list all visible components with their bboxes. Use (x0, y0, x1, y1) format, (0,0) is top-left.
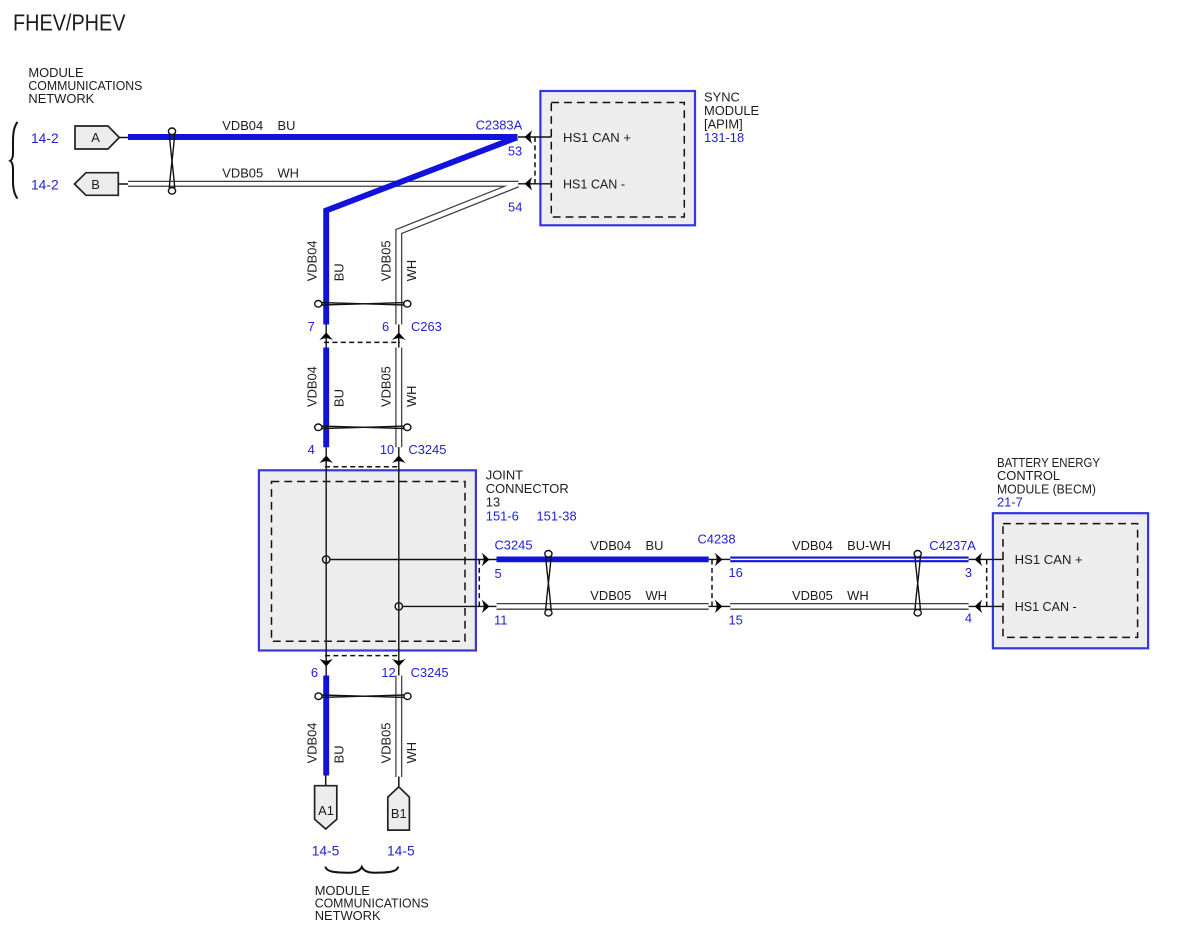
connector A1 (315, 775, 337, 829)
thin stub pin 54 (518, 183, 552, 185)
wire VDB05 WH row B horizontal (white pair) (128, 181, 519, 187)
dashed connector line C3245 bottom (325, 655, 400, 657)
svg-text:HS1 CAN +: HS1 CAN + (1015, 552, 1083, 567)
label BATTERY ENERGY CONTROL MODULE (BECM) 21-7 (997, 455, 1100, 510)
twisted pair symbol rows A/B (168, 128, 175, 194)
wire VDB04 BU column segment 2 (blue) (323, 348, 329, 448)
svg-text:151-38: 151-38 (537, 508, 577, 523)
svg-text:HS1 CAN -: HS1 CAN - (563, 177, 625, 192)
twisted pair symbol columns bottom (315, 693, 411, 700)
dashed connector line C3245 top (325, 466, 400, 468)
svg-text:10: 10 (380, 442, 394, 457)
svg-text:VDB04: VDB04 (304, 240, 319, 281)
arrow pin 3 (975, 553, 983, 567)
wire VDB04 BU right segment 1 (blue) (497, 557, 709, 563)
brace left (module communications network) (10, 122, 17, 199)
svg-text:C4238: C4238 (698, 532, 736, 547)
svg-text:151-6: 151-6 (486, 508, 519, 523)
arrow pin 53 (525, 130, 533, 144)
wire VDB04 BU-WH right segment 2 (blue with white core) (730, 557, 968, 563)
svg-text:HS1 CAN +: HS1 CAN + (563, 130, 631, 145)
label MODULE COMMUNICATIONS NETWORK (bottom) (315, 883, 429, 923)
connector B1 (388, 777, 410, 831)
arrow pin 16 (715, 553, 723, 567)
svg-text:VDB05: VDB05 (379, 240, 394, 281)
label MODULE COMMUNICATIONS NETWORK (top left) (28, 65, 142, 106)
label JOINT CONNECTOR 13 151-6 151-38 (486, 468, 577, 524)
svg-text:13: 13 (486, 494, 500, 509)
svg-text:21-7: 21-7 (997, 495, 1023, 510)
svg-text:VDB04 BU: VDB04 BU (590, 538, 663, 553)
svg-text:3: 3 (965, 565, 972, 580)
svg-text:VDB05: VDB05 (379, 723, 394, 764)
svg-text:14-2: 14-2 (31, 178, 59, 193)
svg-text:C2383A: C2383A (476, 118, 523, 133)
arrow pin 6 (392, 333, 406, 341)
svg-text:VDB05 WH: VDB05 WH (590, 588, 667, 603)
dashed connector line C3245 right (478, 560, 480, 607)
connector B (75, 173, 129, 196)
svg-text:6: 6 (311, 665, 318, 680)
svg-text:FHEV/PHEV: FHEV/PHEV (13, 10, 126, 36)
svg-text:BU: BU (331, 745, 346, 763)
svg-text:B: B (91, 177, 100, 192)
svg-text:5: 5 (495, 566, 502, 581)
svg-text:C4237A: C4237A (929, 538, 976, 553)
svg-text:C263: C263 (411, 319, 442, 334)
twisted pair symbol right 1 (545, 551, 552, 617)
wire VDB05 WH diagonal+vertical from row B down to column (white pair) (399, 184, 518, 324)
brace bottom (module communications network) (325, 867, 398, 873)
svg-text:11: 11 (494, 613, 507, 628)
svg-text:14-5: 14-5 (387, 844, 415, 859)
svg-text:A: A (91, 130, 100, 145)
arrow pin 11 (482, 600, 490, 614)
svg-text:C3245: C3245 (411, 665, 449, 680)
svg-text:BU: BU (331, 263, 346, 281)
svg-text:4: 4 (965, 611, 972, 626)
svg-text:53: 53 (508, 143, 522, 158)
SYNC module box (540, 91, 695, 225)
wire VDB04 BU diagonal+vertical (blue) (326, 137, 517, 324)
connector A (75, 126, 129, 149)
thin exit line joint pin 11 (403, 605, 497, 607)
svg-text:VDB05 WH: VDB05 WH (222, 166, 299, 181)
thin stubs C4237A into BECM (969, 558, 1004, 560)
svg-text:NETWORK: NETWORK (28, 91, 94, 106)
svg-text:4: 4 (308, 442, 315, 457)
svg-text:7: 7 (308, 319, 315, 334)
thin link through C263 blue (325, 325, 327, 348)
svg-text:VDB05 WH: VDB05 WH (792, 588, 869, 603)
twisted pair symbol columns at C263 (315, 301, 411, 308)
node circle joint 2 (395, 603, 402, 610)
arrow pin 15 (715, 600, 723, 614)
svg-text:VDB05: VDB05 (379, 366, 394, 407)
label SYNC MODULE [APIM] 131-18 (704, 89, 760, 145)
svg-text:54: 54 (508, 199, 522, 214)
wire VDB05 WH column segment 2 (white pair) (395, 348, 402, 448)
svg-text:BU: BU (331, 389, 346, 407)
thin line white branch through joint connector (398, 447, 400, 675)
dashed connector line C4237A (986, 560, 988, 607)
svg-text:14-5: 14-5 (312, 844, 340, 859)
svg-text:12: 12 (381, 665, 395, 680)
twisted pair symbol right 2 (914, 551, 921, 617)
arrow pin 4 (319, 456, 333, 464)
svg-text:WH: WH (404, 260, 419, 281)
arrow pin 6 bottom (319, 659, 333, 667)
wire VDB04 BU row A horizontal (blue) (128, 134, 518, 140)
arrow pin 4 becm (975, 600, 983, 614)
svg-text:VDB04 BU-WH: VDB04 BU-WH (792, 538, 891, 553)
thin stub pin 53 (518, 136, 552, 138)
svg-text:WH: WH (404, 386, 419, 407)
svg-text:VDB04 BU: VDB04 BU (222, 118, 295, 133)
wire VDB04 BU column bottom segment (blue) (323, 676, 329, 776)
arrow pin 5 (482, 553, 490, 567)
joint connector box (259, 470, 476, 650)
dashed connector line C4238 (711, 560, 713, 607)
thin link through C263 white (398, 325, 400, 348)
arrow pin 54 (525, 177, 533, 191)
wire VDB05 WH column bottom segment (white pair) (395, 676, 402, 778)
BECM module box (993, 513, 1148, 648)
dashed connector line C2383A (534, 137, 536, 184)
thin stubs C4238 (709, 558, 731, 560)
thin exit line joint pin 5 (330, 559, 497, 561)
svg-text:A1: A1 (318, 803, 334, 818)
svg-text:B1: B1 (391, 806, 407, 821)
svg-text:15: 15 (729, 613, 743, 628)
arrow pin 7 (319, 333, 333, 341)
node circle joint 1 (323, 556, 330, 563)
svg-text:6: 6 (382, 319, 389, 334)
dashed connector line C263 (324, 341, 400, 343)
thin line blue branch through joint connector (325, 447, 327, 675)
svg-text:WH: WH (404, 742, 419, 763)
svg-text:HS1 CAN -: HS1 CAN - (1015, 599, 1077, 614)
arrow pin 12 (392, 659, 406, 667)
wire VDB05 WH right segment 1 (white pair) (497, 603, 709, 610)
white cores of VDB05 wires (128, 184, 969, 777)
svg-text:131-18: 131-18 (704, 130, 744, 145)
arrow pin 10 (392, 456, 406, 464)
svg-text:C3245: C3245 (495, 537, 533, 552)
wire VDB05 WH right segment 2 (white pair) (730, 603, 968, 610)
svg-text:C3245: C3245 (408, 442, 446, 457)
svg-text:VDB04: VDB04 (304, 723, 319, 764)
twisted pair symbol columns at C3245 top (315, 424, 411, 431)
svg-text:NETWORK: NETWORK (315, 908, 381, 923)
svg-text:VDB04: VDB04 (304, 366, 319, 407)
svg-text:16: 16 (729, 565, 743, 580)
svg-text:14-2: 14-2 (31, 131, 59, 146)
